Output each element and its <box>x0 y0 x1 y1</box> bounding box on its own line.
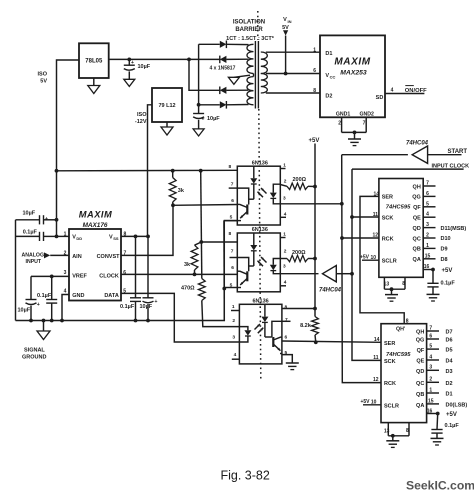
pin4 stub opto2 <box>280 285 286 287</box>
svg-text:0.1µF: 0.1µF <box>23 229 38 235</box>
svg-text:+: + <box>37 302 40 308</box>
wire GND1-GND2 junction <box>342 131 367 133</box>
svg-text:D11(MSB): D11(MSB) <box>441 226 467 232</box>
svg-text:SIGNAL: SIGNAL <box>24 348 45 354</box>
ground U8 <box>386 440 399 442</box>
wire DATA pin5 <box>121 293 239 342</box>
svg-text:0.1µF: 0.1µF <box>37 293 52 299</box>
pin1 stub opto2 <box>280 237 285 239</box>
svg-text:SER: SER <box>384 341 395 347</box>
svg-text:0.1µF: 0.1µF <box>120 304 135 310</box>
svg-text:7: 7 <box>363 121 366 127</box>
transformer primary winding (right) <box>261 52 268 74</box>
svg-text:+5V: +5V <box>442 268 453 274</box>
svg-text:INPUT CLOCK: INPUT CLOCK <box>432 164 470 170</box>
svg-text:7: 7 <box>285 317 288 323</box>
transformer center-tap ground <box>234 75 250 77</box>
svg-text:5: 5 <box>230 215 233 221</box>
pin 5 U8 output QF <box>427 348 439 350</box>
svg-text:SS: SS <box>113 236 119 241</box>
pin 2 U7 output QC <box>423 237 435 239</box>
wire VSS pin8 <box>121 235 148 237</box>
voltage regulator 78L05 <box>79 43 109 78</box>
wire opto1 output to CONVST <box>173 204 237 207</box>
svg-text:QF: QF <box>413 205 421 211</box>
svg-text:Fig. 3-82: Fig. 3-82 <box>221 469 270 483</box>
wire INPUT CLOCK <box>352 168 464 170</box>
diode D2 of 4x1N5817 <box>219 56 221 64</box>
inverter U3b 74HC04 (INPUT CLOCK) <box>280 273 318 275</box>
shift register U8 74HC595 (low byte) <box>381 324 427 423</box>
svg-text:200Ω: 200Ω <box>293 177 307 183</box>
svg-text:AIN: AIN <box>72 254 82 260</box>
wire VDD pin1 <box>57 235 70 237</box>
pin7 stub opto1 <box>229 187 238 189</box>
pin 4 U7 output QE <box>423 216 435 218</box>
svg-text:ANALOG: ANALOG <box>22 253 44 259</box>
svg-text:1: 1 <box>429 387 432 393</box>
capacitor 0.1uF at VREF <box>51 276 53 299</box>
svg-text:10µF: 10µF <box>23 210 36 216</box>
wire CLOCK pin6 <box>121 273 237 275</box>
ground under 79L12 <box>166 122 168 127</box>
svg-text:3: 3 <box>283 196 286 202</box>
svg-text:470Ω: 470Ω <box>181 286 195 292</box>
svg-text:6: 6 <box>426 191 429 197</box>
wire GND pin4 <box>62 295 69 321</box>
pin1 stub opto1 <box>280 168 285 170</box>
wire SD to ON/OFF <box>385 93 424 95</box>
svg-text:+5V: +5V <box>309 138 320 144</box>
svg-text:SD: SD <box>376 95 384 101</box>
svg-text:QF: QF <box>417 348 425 354</box>
svg-text:GND1: GND1 <box>336 112 351 118</box>
svg-text:7: 7 <box>426 181 429 187</box>
svg-text:6N136: 6N136 <box>252 227 268 233</box>
wire opto3 output to SER <box>282 341 381 342</box>
svg-text:11: 11 <box>373 355 379 361</box>
svg-text:5: 5 <box>230 283 233 289</box>
svg-text:MAXIM: MAXIM <box>79 210 113 220</box>
svg-text:3k: 3k <box>184 262 191 268</box>
ground under second 10uF cap <box>193 129 204 136</box>
opto1 transistor <box>246 205 248 215</box>
svg-text:QB: QB <box>416 392 424 398</box>
svg-text:1: 1 <box>313 48 316 54</box>
opto3 base feed <box>272 321 282 337</box>
svg-text:-12V: -12V <box>135 119 147 125</box>
svg-text:74HC595: 74HC595 <box>386 352 411 358</box>
svg-text:+: + <box>131 60 134 66</box>
capacitor 0.1uF at U7 <box>432 270 434 284</box>
svg-text:5: 5 <box>426 201 429 207</box>
node SIGNAL GROUND <box>43 321 45 332</box>
svg-text:10µF: 10µF <box>207 116 220 122</box>
svg-text:12: 12 <box>373 377 379 383</box>
opto2 transistor <box>246 271 248 281</box>
svg-text:2: 2 <box>232 318 235 324</box>
opto1 photodiode <box>253 166 255 178</box>
svg-text:3: 3 <box>426 222 429 228</box>
resistor 200ohm (opto1) <box>280 185 287 187</box>
wire SER U7 from QH' of U8 <box>360 196 404 323</box>
diode D4 of 4x1N5817 <box>220 101 227 108</box>
svg-text:3: 3 <box>232 335 235 341</box>
pin 6 U8 output QG <box>427 338 439 340</box>
svg-text:5: 5 <box>429 344 432 350</box>
svg-text:D8: D8 <box>441 257 448 263</box>
pin 4 U8 output QE <box>427 359 439 361</box>
wire opto emitters to signal ground <box>223 221 225 321</box>
svg-text:D7: D7 <box>446 330 453 336</box>
svg-text:GROUND: GROUND <box>22 355 46 361</box>
wire 78L05 input from rectifier <box>109 58 220 60</box>
svg-text:D2: D2 <box>446 381 453 387</box>
pin 15 U7 output QA <box>423 258 435 260</box>
svg-text:79 L12: 79 L12 <box>158 103 175 109</box>
svg-text:MAX253: MAX253 <box>340 70 367 77</box>
svg-text:8: 8 <box>229 164 232 170</box>
svg-text:15: 15 <box>428 398 434 404</box>
svg-text:10µF: 10µF <box>18 308 31 314</box>
svg-text:QD: QD <box>416 369 424 375</box>
svg-text:1CT : 1.5CT : 3CT*: 1CT : 1.5CT : 3CT* <box>226 36 275 42</box>
svg-text:SCLR: SCLR <box>382 259 397 265</box>
svg-text:QH: QH <box>413 184 421 190</box>
ground under 78L05 <box>93 78 95 86</box>
ground MAX253 <box>348 138 361 140</box>
svg-text:4: 4 <box>284 280 287 286</box>
svg-text:D1: D1 <box>446 392 453 398</box>
svg-text:10µF: 10µF <box>138 64 151 70</box>
svg-text:D5: D5 <box>446 348 453 354</box>
svg-text:5V: 5V <box>282 25 289 31</box>
pin 7 U7 output QH <box>423 185 435 187</box>
pin 5 U7 output QF <box>423 206 435 208</box>
svg-text:SeekIC.com: SeekIC.com <box>406 479 474 493</box>
svg-text:RCK: RCK <box>382 236 394 242</box>
svg-text:D6: D6 <box>446 338 453 344</box>
svg-text:+: + <box>45 216 48 222</box>
capacitor 0.1uF at VDD <box>16 235 40 237</box>
opto1 light arrows <box>261 188 267 194</box>
node rectifier negative bus <box>198 44 200 105</box>
pin 7 U8 output QH <box>427 330 439 332</box>
wire ISO5V to opto1 Vcc <box>57 169 238 172</box>
opto2 light arrows <box>261 257 267 263</box>
wire T1 center tap to MAX253 Vcc <box>266 73 320 75</box>
svg-text:78L05: 78L05 <box>85 59 103 65</box>
svg-text:D2: D2 <box>325 94 332 100</box>
svg-text:8: 8 <box>285 305 288 311</box>
svg-text:15: 15 <box>425 253 431 259</box>
svg-text:2: 2 <box>429 377 432 383</box>
transformer core <box>254 41 256 109</box>
svg-text:6: 6 <box>313 68 316 74</box>
wire T1 to MAX253 D1 <box>266 51 320 53</box>
svg-text:200Ω: 200Ω <box>292 250 306 256</box>
svg-text:DATA: DATA <box>104 293 118 299</box>
svg-text:RCK: RCK <box>384 381 396 387</box>
svg-text:CLOCK: CLOCK <box>99 274 119 280</box>
svg-text:74HC595: 74HC595 <box>386 205 411 211</box>
svg-text:0.1µF: 0.1µF <box>445 423 460 429</box>
pin4 stub opto3 <box>232 358 240 360</box>
svg-text:7: 7 <box>231 249 234 255</box>
ADC U1 MAX176 <box>69 229 121 301</box>
resistor 470ohm (DATA LED) <box>198 279 205 301</box>
svg-text:QD: QD <box>413 226 421 232</box>
svg-text:3: 3 <box>283 264 286 270</box>
wire opto3 Vcc to 8.2k <box>282 308 315 310</box>
svg-text:IN: IN <box>288 19 292 24</box>
svg-text:ON/OFF: ON/OFF <box>405 88 427 94</box>
svg-text:BARRIER: BARRIER <box>235 27 263 33</box>
svg-text:QG: QG <box>412 195 421 201</box>
svg-text:D1: D1 <box>325 51 332 57</box>
svg-text:+: + <box>202 117 205 123</box>
svg-text:D0(LSB): D0(LSB) <box>446 403 468 409</box>
opto3 light arrows <box>255 324 261 330</box>
node rectifier positive bus <box>187 58 191 62</box>
opto1 LED <box>273 184 280 192</box>
wire CONVST pin7 <box>121 205 173 255</box>
svg-text:8: 8 <box>313 88 316 94</box>
svg-text:4: 4 <box>391 88 394 94</box>
resistor 8.2k pullup <box>313 307 317 311</box>
wire SCK bus <box>352 169 381 360</box>
opto2 photodiode <box>253 233 255 245</box>
ground U7 <box>385 294 398 296</box>
svg-text:D10: D10 <box>441 236 451 242</box>
svg-text:8: 8 <box>406 319 409 325</box>
svg-text:3k: 3k <box>178 188 185 194</box>
wire SCLR U8 <box>363 404 381 406</box>
svg-text:D4: D4 <box>446 359 454 365</box>
svg-text:8.2k: 8.2k <box>300 323 312 329</box>
svg-text:START: START <box>448 149 468 155</box>
pin 2 U8 output QC <box>427 381 439 383</box>
svg-text:4 x 1N5817: 4 x 1N5817 <box>210 65 236 71</box>
wire ISO5V branch to opto2/470ohm <box>201 171 202 279</box>
capacitor 0.1uF at U8 <box>436 414 439 430</box>
pin 15 U8 output QA <box>427 403 439 405</box>
svg-text:ISO: ISO <box>38 72 48 78</box>
pin 3 U7 output QD <box>423 227 435 229</box>
svg-text:GND2: GND2 <box>360 112 375 118</box>
ground 0.1uF U8 <box>431 437 444 439</box>
svg-text:6: 6 <box>231 198 234 204</box>
pin7 stub opto3 <box>282 320 291 322</box>
svg-text:10µF: 10µF <box>140 304 153 310</box>
svg-text:2: 2 <box>284 179 287 185</box>
shift register U7 74HC595 (high byte) <box>379 179 423 278</box>
svg-text:QC: QC <box>416 381 424 387</box>
capacitor 10uF at 78L05 <box>128 59 130 65</box>
svg-text:6: 6 <box>285 335 288 341</box>
svg-text:6: 6 <box>231 265 234 271</box>
wire 79L12 to ISO -12V rail <box>148 105 153 237</box>
svg-text:GND: GND <box>72 293 84 299</box>
wire U7 ground junction <box>384 288 405 290</box>
wire SCK U7 <box>352 216 379 218</box>
svg-text:QE: QE <box>416 359 424 365</box>
svg-text:D9: D9 <box>441 247 448 253</box>
svg-text:D3: D3 <box>446 369 453 375</box>
svg-text:QE: QE <box>413 216 421 222</box>
svg-text:74HC04: 74HC04 <box>319 287 342 293</box>
ground under 10uF cap <box>124 79 135 86</box>
wire opto3 emitter to ground <box>282 355 292 363</box>
svg-text:4: 4 <box>64 288 67 294</box>
svg-text:SCK: SCK <box>382 215 394 221</box>
opto3 photodiode <box>264 304 266 316</box>
pin 6 U7 output QG <box>423 195 435 197</box>
svg-text:3: 3 <box>429 365 432 371</box>
wire left cap rail <box>15 220 17 321</box>
opto3 transistor <box>272 337 274 347</box>
resistor 3k (CONVST pullup) <box>172 171 174 178</box>
svg-text:QA: QA <box>413 257 421 263</box>
opto2 base feed <box>237 258 248 272</box>
svg-text:+5V: +5V <box>446 412 457 418</box>
resistor 200ohm (opto2) <box>280 258 287 260</box>
wire T1 to MAX253 D2 <box>266 92 320 94</box>
pin 1 U7 output QB <box>423 247 435 249</box>
wire opto2 Vcc stub <box>201 241 237 243</box>
voltage regulator 79L12 <box>152 88 182 122</box>
opto3 LED <box>239 327 248 331</box>
svg-text:ISOLATION: ISOLATION <box>233 20 265 26</box>
svg-text:14: 14 <box>374 337 380 343</box>
pin 1 U8 output QB <box>427 392 439 394</box>
wire START/RCK bus <box>342 155 381 383</box>
ground 0.1uF U7 <box>427 293 440 295</box>
svg-text:0.1µF: 0.1µF <box>441 281 456 287</box>
svg-text:QH: QH <box>416 330 424 336</box>
svg-text:SCK: SCK <box>384 359 396 365</box>
svg-text:+5V: +5V <box>360 254 370 260</box>
svg-text:1: 1 <box>283 232 286 238</box>
wire SCLR U7 <box>362 259 379 261</box>
svg-text:1: 1 <box>426 243 429 249</box>
svg-text:MAXIM: MAXIM <box>334 57 370 68</box>
svg-text:VREF: VREF <box>72 274 87 280</box>
svg-text:4: 4 <box>234 352 237 358</box>
svg-text:3: 3 <box>64 270 67 276</box>
svg-text:QG: QG <box>416 338 425 344</box>
svg-text:2: 2 <box>338 121 341 127</box>
svg-text:4: 4 <box>429 354 432 360</box>
svg-text:ISO: ISO <box>137 112 147 118</box>
svg-text:SCLR: SCLR <box>384 404 399 410</box>
pin 3 U8 output QD <box>427 369 439 371</box>
svg-text:QB: QB <box>413 247 421 253</box>
wire VREF pin3 <box>31 275 69 277</box>
svg-text:6N136: 6N136 <box>252 160 268 166</box>
opto1 base feed <box>237 188 248 204</box>
svg-text:INPUT: INPUT <box>26 259 42 265</box>
wire RCK U7 <box>342 237 379 239</box>
transformer T1 secondary winding (left) <box>247 44 254 73</box>
wire opto1 pin3 to START bus <box>280 203 342 205</box>
wire 470ohm to opto3 anode <box>202 301 240 327</box>
svg-text:SER: SER <box>382 195 393 201</box>
wire U8 ground junction <box>388 435 409 437</box>
svg-text:QA: QA <box>416 403 424 409</box>
svg-text:MAX176: MAX176 <box>83 222 108 229</box>
pin5 wire opto1 emitter <box>224 220 237 222</box>
svg-text:2: 2 <box>426 233 429 239</box>
svg-text:DD: DD <box>76 236 82 241</box>
svg-text:7: 7 <box>429 325 432 331</box>
capacitor 0.1uF at VSS <box>135 236 137 297</box>
capacitor 10uF at 79L12 input <box>198 105 200 114</box>
isolation barrier dotted line <box>257 11 259 40</box>
svg-text:5V: 5V <box>40 79 47 85</box>
svg-text:74HC04: 74HC04 <box>406 140 429 146</box>
transformer driver U2 MAX253 <box>320 35 385 117</box>
svg-text:2: 2 <box>284 249 287 255</box>
diode D1 of 4x1N5817 <box>220 41 227 48</box>
opto2 LED <box>273 259 280 265</box>
svg-text:+: + <box>155 299 158 305</box>
svg-text:6: 6 <box>429 333 432 339</box>
wire 78L05 output to ISO5V rail <box>57 60 80 236</box>
capacitor 10uF at VSS <box>147 236 149 297</box>
pin4 stub opto1 <box>280 216 286 218</box>
svg-text:1: 1 <box>283 163 286 169</box>
pin7 stub opto2 <box>230 257 238 259</box>
svg-text:7: 7 <box>231 182 234 188</box>
ground opto3 <box>286 362 299 364</box>
svg-text:4: 4 <box>426 212 429 218</box>
signal ground rail <box>16 221 238 321</box>
svg-text:QH': QH' <box>396 326 405 332</box>
resistor 3k (CLOCK pullup) <box>195 242 202 245</box>
diode D3 of 4x1N5817 <box>219 87 221 95</box>
capacitor 10uF at VREF <box>30 276 32 299</box>
svg-text:CC: CC <box>330 75 336 80</box>
svg-text:CONVST: CONVST <box>97 254 121 260</box>
svg-text:8: 8 <box>229 231 232 237</box>
svg-text:QC: QC <box>413 236 421 242</box>
svg-text:1: 1 <box>232 304 235 310</box>
capacitor 10uF at VDD <box>16 219 40 221</box>
pin1 stub opto3 <box>231 310 239 312</box>
svg-text:6: 6 <box>123 270 126 276</box>
